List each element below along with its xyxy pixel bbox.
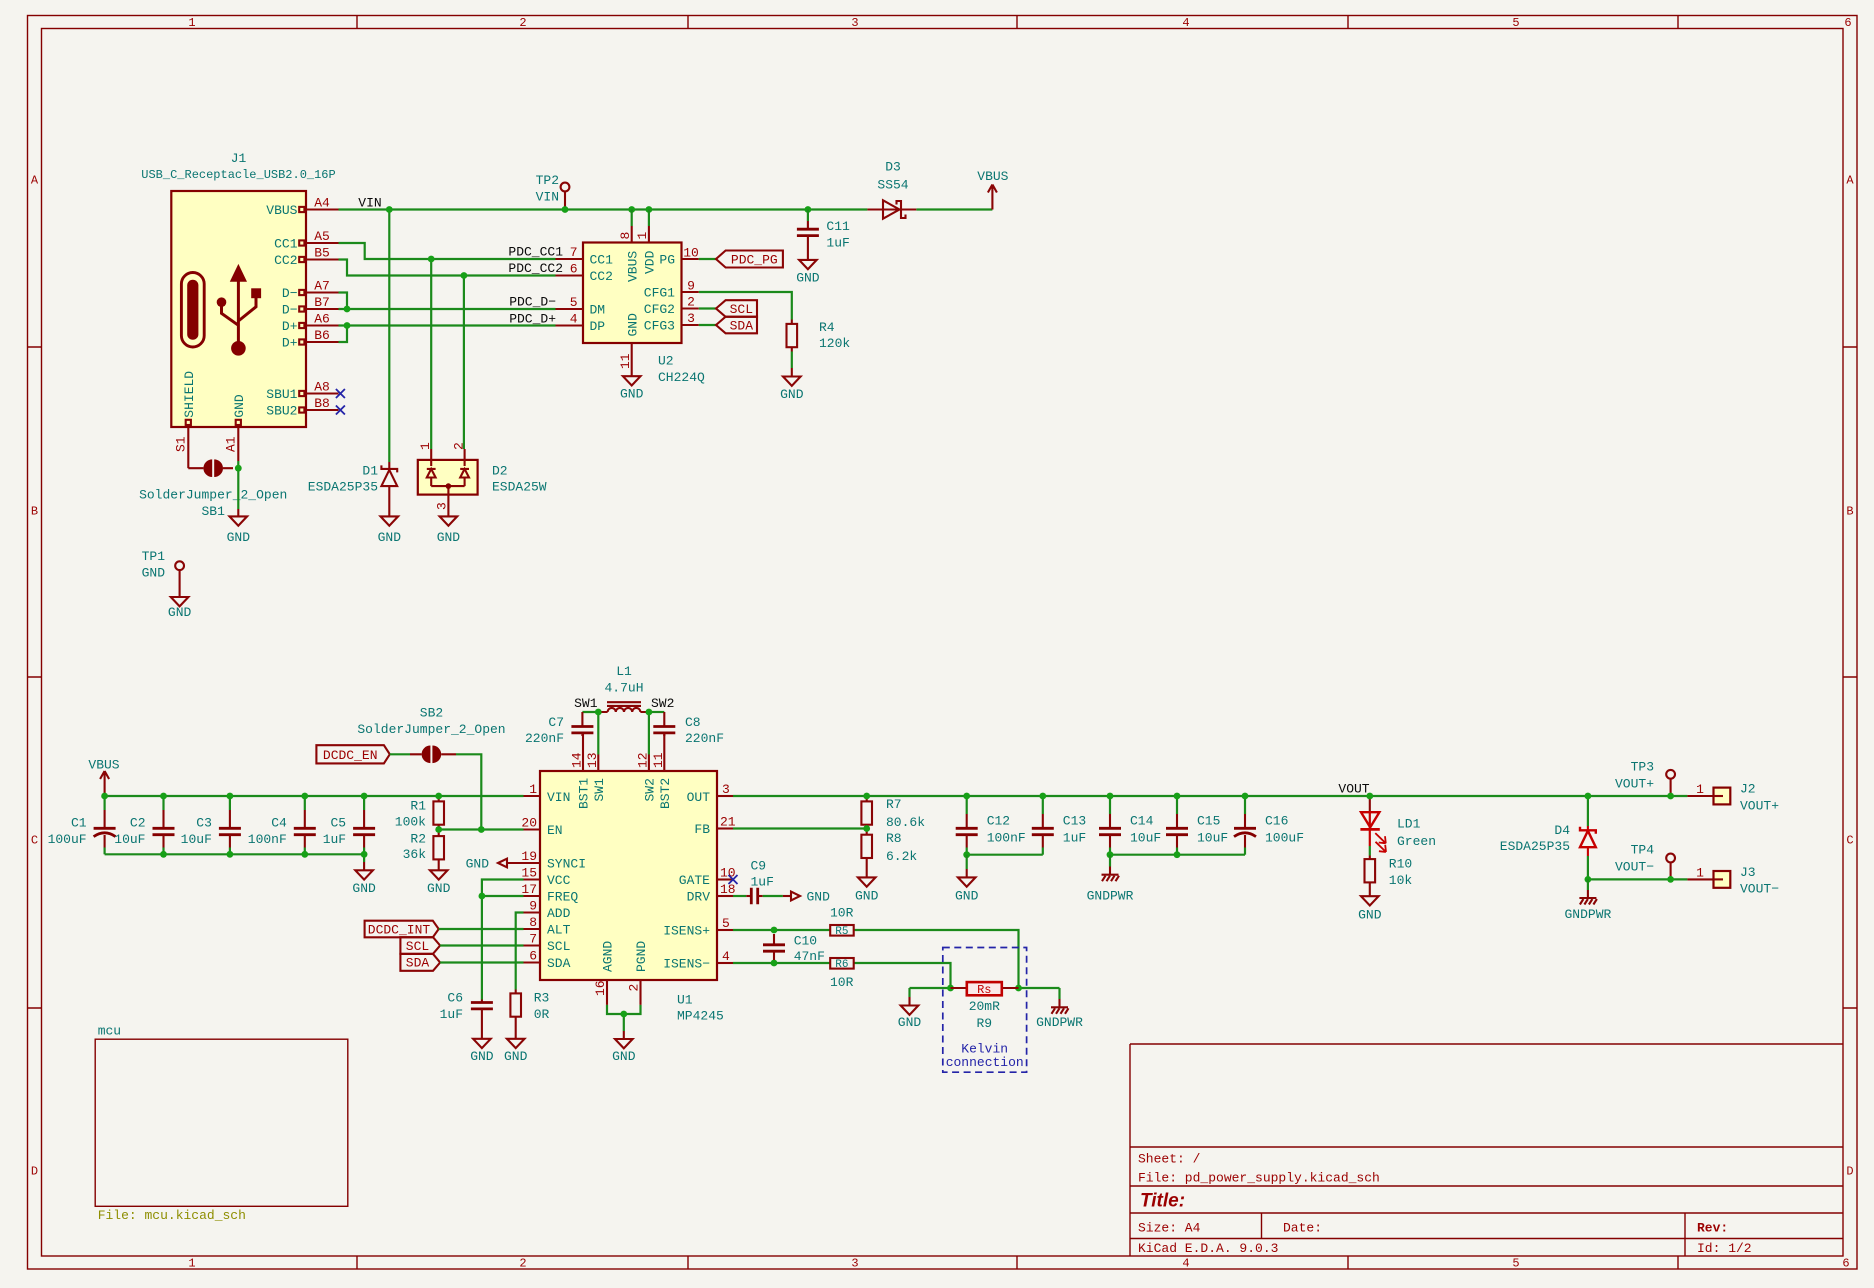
power symbol VBUS (bottom left) [88,758,119,797]
svg-text:18: 18 [720,882,736,897]
J1 pin B5 CC2 [274,246,338,269]
U1 pin 18 DRV [687,882,736,905]
svg-text:1: 1 [188,16,195,30]
svg-text:TP4: TP4 [1631,843,1655,858]
svg-text:GND: GND [796,270,820,285]
junction Rs left [947,985,954,992]
resistor R1 100k [395,796,444,830]
power symbol GNDPWR right of Rs [1036,988,1083,1030]
wire CC1 to PDC_CC1 [339,243,556,259]
svg-text:GND: GND [227,530,251,545]
resistor R4 120k [787,320,851,352]
svg-text:CFG3: CFG3 [644,319,675,334]
wire VCC/FREQ to C6 [482,880,524,1000]
svg-text:6.2k: 6.2k [886,849,917,864]
junction VOUT-/TP4 [1667,876,1674,883]
U2 pin 7 CC1 [556,245,614,268]
svg-text:100nF: 100nF [987,831,1026,846]
svg-text:J3: J3 [1740,865,1756,880]
svg-text:C14: C14 [1130,814,1154,829]
svg-text:13: 13 [585,752,600,768]
solder jumper SB2 [357,706,505,764]
capacitor C1 100uF polarized [48,796,116,854]
svg-text:File: mcu.kicad_sch: File: mcu.kicad_sch [98,1208,246,1223]
svg-text:80.6k: 80.6k [886,815,925,830]
svg-text:GATE: GATE [679,873,710,888]
U1 pin 10 GATE [679,866,736,889]
frame column labels bottom [188,1257,1849,1271]
wire VOUT- net [1588,878,1688,880]
diode D4 ESDA25P35 [1500,796,1596,856]
svg-text:DM: DM [590,303,606,318]
ground below R10 [1358,896,1382,922]
capacitor C10 47nF [763,933,825,964]
svg-text:100nF: 100nF [248,832,287,847]
U1 pin 1 VIN [524,782,571,805]
junction R1/R2/EN [435,826,442,833]
J1 pin B8 SBU2 [266,396,338,419]
capacitor C15 10uF [1166,796,1228,855]
svg-text:Rs: Rs [977,983,991,997]
svg-text:4: 4 [570,312,578,327]
svg-text:DP: DP [590,319,606,334]
svg-text:DRV: DRV [687,890,711,905]
svg-text:GNDPWR: GNDPWR [1564,907,1611,922]
svg-text:LD1: LD1 [1397,817,1421,832]
junction ISENS-/C10 [771,960,778,967]
svg-text:C13: C13 [1063,814,1086,829]
J1 pin S1 SHIELD [174,371,197,469]
U1 pin 7 SCL [524,932,571,955]
wire CC2 to PDC_CC2 [339,260,556,276]
svg-text:CH224Q: CH224Q [658,370,705,385]
svg-text:C7: C7 [548,715,564,730]
svg-text:SW2: SW2 [643,778,658,801]
svg-text:R3: R3 [534,991,550,1006]
svg-text:R10: R10 [1389,857,1412,872]
svg-text:21: 21 [720,815,736,830]
svg-text:10R: 10R [830,975,854,990]
frame row labels right [1846,174,1854,1179]
USB-C pill icon [181,273,204,348]
junction VBUS/R1 [435,793,442,800]
svg-text:12: 12 [635,752,650,768]
svg-text:5: 5 [722,916,730,931]
svg-text:2: 2 [519,16,526,30]
junction SB1/A1 [235,465,242,472]
junction VOUT/C15 [1174,793,1181,800]
svg-text:6: 6 [570,262,578,277]
svg-text:8: 8 [618,232,633,240]
svg-text:CFG2: CFG2 [644,302,675,317]
hierarchical label PDC_PG [716,251,783,268]
junction VOUT/LD1 [1366,793,1373,800]
svg-text:SDA: SDA [547,956,571,971]
svg-text:GND: GND [470,1049,494,1064]
junction VOUT/TP3 [1667,793,1674,800]
svg-text:B6: B6 [314,328,330,343]
svg-text:100uF: 100uF [48,832,87,847]
svg-text:connection: connection [946,1055,1024,1070]
inductor L1 4.7uH [598,664,649,712]
svg-text:1: 1 [418,442,433,450]
svg-text:VBUS: VBUS [625,251,640,282]
capacitor C12 100nF [956,796,1026,855]
svg-text:GND: GND [142,566,166,581]
svg-text:R7: R7 [886,797,902,812]
svg-text:C: C [1846,834,1853,848]
svg-text:SB2: SB2 [420,706,443,721]
svg-text:SBU2: SBU2 [266,404,297,419]
capacitor C14 10uF [1099,796,1161,855]
junction VBUS/C4 [301,793,308,800]
svg-text:10: 10 [683,246,699,261]
ground below R3 [504,1039,528,1064]
junction VOUT/C13 [1039,793,1046,800]
svg-text:D3: D3 [885,160,901,175]
svg-text:VBUS: VBUS [88,758,119,773]
U2 pin 11 GND [618,313,640,376]
svg-text:SW1: SW1 [574,696,598,711]
frame column labels top [188,16,1851,30]
svg-text:Rev:: Rev: [1697,1221,1728,1236]
title block [1130,1044,1843,1256]
connector J3 VOUT- [1687,865,1779,897]
svg-text:C2: C2 [130,816,146,831]
resistor R9 Rs 20mR [951,982,1019,1031]
svg-text:10uF: 10uF [1197,831,1228,846]
wire DRV to C9 [733,895,746,897]
svg-text:Id: 1/2: Id: 1/2 [1697,1241,1752,1256]
svg-text:0R: 0R [534,1007,550,1022]
svg-text:100k: 100k [395,815,426,830]
wire ISENS- net [733,963,951,988]
svg-text:47nF: 47nF [794,949,825,964]
svg-text:6: 6 [1844,16,1851,30]
svg-text:GND: GND [855,888,879,903]
junction PDC_D+ [344,322,351,329]
U1 pin 4 ISENS- [663,949,733,972]
junction AGND/PGND [620,1011,627,1018]
wire DCDC_EN to SB2 [390,753,410,755]
svg-text:C4: C4 [271,816,287,831]
junction VBUS/C2 [160,793,167,800]
svg-text:ADD: ADD [547,906,571,921]
IC U2 CH224Q [583,243,705,386]
connector J2 VOUT+ [1687,782,1779,814]
svg-text:1uF: 1uF [751,874,774,889]
svg-text:VOUT−: VOUT− [1740,882,1779,897]
svg-text:SW2: SW2 [651,696,674,711]
svg-text:U1: U1 [677,993,693,1008]
J1 pin A7 D- [282,279,339,302]
solder jumper SB1 [139,459,287,519]
svg-text:A: A [1846,174,1854,188]
no-connect SBU1 [336,389,345,398]
wire Rs to GNDPWR [1019,987,1060,989]
svg-text:VCC: VCC [547,873,571,888]
svg-text:CC2: CC2 [590,269,613,284]
svg-text:4: 4 [1182,1257,1189,1271]
svg-text:17: 17 [521,882,537,897]
U2 pin 3 CFG3 [644,311,716,334]
svg-text:TP1: TP1 [142,549,166,564]
wire C9 to GND [763,895,783,897]
svg-text:ESDA25P35: ESDA25P35 [308,480,378,495]
wire PDC_D- [339,308,556,310]
ground below C12 [955,855,979,904]
wire VIN net [339,208,993,210]
wire PDC_D+ [339,324,556,326]
svg-text:GND: GND [620,387,644,402]
wire C5 to GND [363,854,365,862]
U2 pin 6 CC2 [556,262,613,285]
capacitor C11 1uF [797,210,850,260]
svg-text:SDA: SDA [406,956,430,971]
svg-text:C12: C12 [987,814,1010,829]
svg-text:GND: GND [427,881,451,896]
svg-text:C15: C15 [1197,814,1220,829]
ground below SB1 [227,509,251,545]
svg-text:CFG1: CFG1 [644,286,675,301]
hierarchical label SCL (U1) [400,937,440,954]
svg-text:GND: GND [466,856,490,871]
svg-text:KiCad E.D.A. 9.0.3: KiCad E.D.A. 9.0.3 [1138,1241,1278,1256]
svg-text:Size: A4: Size: A4 [1138,1221,1201,1236]
svg-text:15: 15 [521,866,537,881]
svg-text:PDC_PG: PDC_PG [731,253,778,268]
capacitor C4 100nF [248,796,316,854]
wire D4 to VOUT- [1587,856,1589,879]
svg-text:R5: R5 [835,926,848,938]
resistor R5 10R [830,906,854,939]
IC U1 MP4245 [540,771,724,1024]
svg-text:L1: L1 [616,664,632,679]
wire VOUT bus [733,795,1687,797]
diode D1 ESDA25P35 [308,462,397,516]
svg-text:mcu: mcu [98,1024,121,1039]
svg-text:C11: C11 [826,219,850,234]
svg-text:C1: C1 [71,816,87,831]
hierarchical sheet mcu [95,1024,348,1224]
U1 pin 8 ALT [524,915,571,938]
svg-text:9: 9 [687,279,695,294]
junction VOUT/C14 [1107,793,1114,800]
svg-text:A: A [31,174,39,188]
resistor R6 10R [830,958,854,990]
frame row labels left [31,174,39,1179]
svg-text:4.7uH: 4.7uH [604,680,643,695]
svg-text:C16: C16 [1265,814,1288,829]
no-connect GATE [729,875,738,884]
test point TP1 [142,549,184,597]
LED LD1 Green [1360,796,1436,852]
svg-text:S1: S1 [174,436,189,452]
power symbol GNDPWR below C14 [1087,855,1134,904]
svg-text:C9: C9 [751,858,767,873]
svg-text:7: 7 [529,932,537,947]
test point TP4 [1615,843,1675,880]
svg-text:GND: GND [378,530,402,545]
junction GNDPWR bus C14 [1107,851,1114,858]
ground below R2 [427,870,451,896]
svg-text:C5: C5 [330,816,346,831]
svg-text:10uF: 10uF [114,832,145,847]
no-connect SBU2 [336,406,345,415]
svg-text:AGND: AGND [601,941,616,972]
svg-text:1uF: 1uF [826,235,849,250]
capacitor C16 100uF polarized [1234,796,1304,855]
U2 pin 5 DM [556,295,606,318]
svg-text:DCDC_INT: DCDC_INT [368,922,431,937]
junction VIN/U2 VDD [646,206,653,213]
svg-text:ISENS−: ISENS− [663,957,710,972]
J1 pin A5 CC1 [274,229,338,252]
svg-text:9: 9 [529,899,537,914]
svg-text:4: 4 [1182,16,1189,30]
svg-text:D+: D+ [282,319,298,334]
svg-text:D: D [31,1165,38,1179]
svg-text:4: 4 [722,949,730,964]
wire FB net [733,827,867,829]
svg-text:R4: R4 [819,320,835,335]
svg-text:6: 6 [1842,1257,1849,1271]
ground below D2 [437,516,461,545]
svg-text:36k: 36k [403,847,427,862]
junction PDC_CC1/D2 [428,256,435,263]
svg-text:VIN: VIN [358,196,381,211]
U2 pin 4 DP [556,312,606,335]
U2 pin 8 VBUS [618,210,640,283]
junction PDC_CC2/D2 [461,272,468,279]
svg-text:MP4245: MP4245 [677,1009,724,1024]
junction ISENS+/C10 [771,927,778,934]
wire AGND/PGND to GND [607,1005,641,1031]
svg-text:PDC_D+: PDC_D+ [509,312,556,327]
ground below U1 [612,1031,636,1064]
svg-text:SolderJumper_2_Open: SolderJumper_2_Open [357,722,505,737]
svg-text:VDD: VDD [643,250,658,274]
J1 pin B7 D- [282,295,339,318]
svg-text:PDC_D−: PDC_D− [509,295,556,310]
svg-text:1uF: 1uF [440,1007,463,1022]
J1 pin A6 D+ [282,312,339,335]
Kelvin connection dashed box [943,948,1027,1073]
ground below C6 [470,1039,494,1064]
junction GND bus C2 [160,851,167,858]
U1 pin 15 VCC [521,866,570,889]
wire GNDPWR bus C14-C16 [1110,854,1245,856]
svg-text:SYNCI: SYNCI [547,857,586,872]
svg-text:PG: PG [659,253,675,268]
svg-text:GND: GND [780,387,804,402]
ground below TP1 [168,597,192,620]
svg-text:Date:: Date: [1283,1221,1322,1236]
junction SW2 [646,709,653,716]
wire EN net [439,828,524,830]
junction VIN/C11 [805,206,812,213]
svg-text:16: 16 [593,980,608,996]
U1 pin 5 ISENS+ [663,916,733,939]
J1 pin A8 SBU1 [266,380,338,403]
svg-text:2: 2 [687,295,695,310]
svg-text:SDA: SDA [730,319,754,334]
U2 pin 1 VDD [635,210,657,275]
svg-text:10k: 10k [1389,873,1413,888]
junction R7/R8 FB [863,825,870,832]
junction VBUS/C3 [227,793,234,800]
svg-text:SCL: SCL [547,939,570,954]
svg-text:5: 5 [1512,1257,1519,1271]
svg-text:1: 1 [1696,782,1704,797]
resistor R10 10k [1365,856,1413,897]
svg-text:220nF: 220nF [685,731,724,746]
U1 pin 17 FREQ [521,882,578,905]
capacitor C6 1uF [440,991,493,1039]
svg-text:GNDPWR: GNDPWR [1087,888,1134,903]
svg-text:GND: GND [625,313,640,337]
wire LD1 to R10 [1369,846,1371,856]
wire PDC_CC2 to D2 pin2 [463,276,465,450]
wire DCDC_INT to ALT [439,928,524,930]
junction VBUS/C5 [361,793,368,800]
svg-text:11: 11 [651,752,666,768]
U1 pin 16 AGND [593,941,616,1005]
svg-text:Title:: Title: [1140,1191,1185,1212]
svg-text:120k: 120k [819,336,850,351]
diode D3 SS54 schottky [867,160,916,219]
svg-text:VBUS: VBUS [977,169,1008,184]
ground below C11 [796,260,820,286]
svg-text:A7: A7 [314,279,330,294]
wire SB2 to EN [456,754,481,829]
svg-text:TP3: TP3 [1631,760,1654,775]
svg-text:GND: GND [437,530,461,545]
junction VOUT/C16 [1242,793,1249,800]
wire D+ B6 to A6 [339,326,348,343]
svg-text:5: 5 [1512,16,1519,30]
svg-text:VIN: VIN [536,190,559,205]
svg-text:14: 14 [570,752,585,768]
wire D- A7 to B7 [339,293,348,310]
svg-text:CC2: CC2 [274,253,297,268]
svg-text:EN: EN [547,823,563,838]
svg-text:20mR: 20mR [969,999,1000,1014]
junction GND bus C4 [301,851,308,858]
svg-text:GND: GND [612,1049,636,1064]
svg-text:1uF: 1uF [1063,831,1086,846]
capacitor C5 1uF [323,796,375,854]
svg-text:11: 11 [618,353,633,369]
svg-text:VOUT−: VOUT− [1615,860,1654,875]
svg-text:1: 1 [529,782,537,797]
svg-text:B7: B7 [314,295,330,310]
svg-text:D−: D− [282,286,298,301]
junction GND bus C3 [227,851,234,858]
U1 pin 14 BST1 [570,733,592,809]
svg-text:A4: A4 [314,196,330,211]
svg-text:5: 5 [570,295,578,310]
svg-text:J1: J1 [231,151,247,166]
svg-text:C3: C3 [196,816,212,831]
U2 pin 10 PG [659,246,716,268]
junction PDC_D- [344,306,351,313]
svg-text:CC1: CC1 [274,237,298,252]
svg-text:R2: R2 [410,831,426,846]
svg-text:R9: R9 [976,1016,992,1031]
resistor R3 0R [510,990,549,1039]
U1 pin 12 SW2 [635,712,657,802]
